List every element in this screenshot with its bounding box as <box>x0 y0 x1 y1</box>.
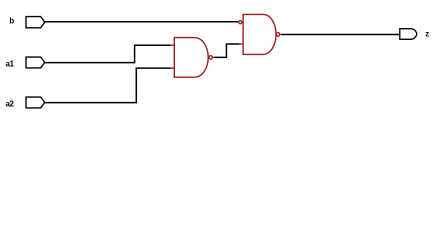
svg-text:b: b <box>9 17 14 26</box>
pin stub U2 output <box>280 33 282 35</box>
wire U1 output to U2 input B <box>215 44 240 57</box>
output port z <box>400 29 417 40</box>
input port b <box>26 17 44 28</box>
nand gate U1 <box>170 38 215 78</box>
pin stub U2 input B <box>240 43 244 45</box>
input port a2 <box>26 97 44 108</box>
wire net a2 <box>44 68 171 103</box>
bubble U1 output <box>209 56 213 60</box>
wire net a1 <box>44 45 171 62</box>
gate body U1 <box>174 38 208 78</box>
gate body U2 <box>243 14 276 54</box>
wire net z <box>282 33 400 35</box>
bubble U2 output <box>276 33 280 37</box>
nand gate U2 with inverted input A <box>239 14 282 54</box>
svg-text:a1: a1 <box>6 59 15 68</box>
bubble U2 input A <box>239 21 242 24</box>
svg-text:z: z <box>425 29 429 38</box>
wire net b <box>44 21 238 23</box>
pin stub U1 output <box>213 56 215 58</box>
pin stub U1 input A <box>170 44 174 46</box>
svg-text:a2: a2 <box>6 99 15 108</box>
input port a1 <box>26 57 44 68</box>
pin stub U1 input B <box>170 67 174 69</box>
